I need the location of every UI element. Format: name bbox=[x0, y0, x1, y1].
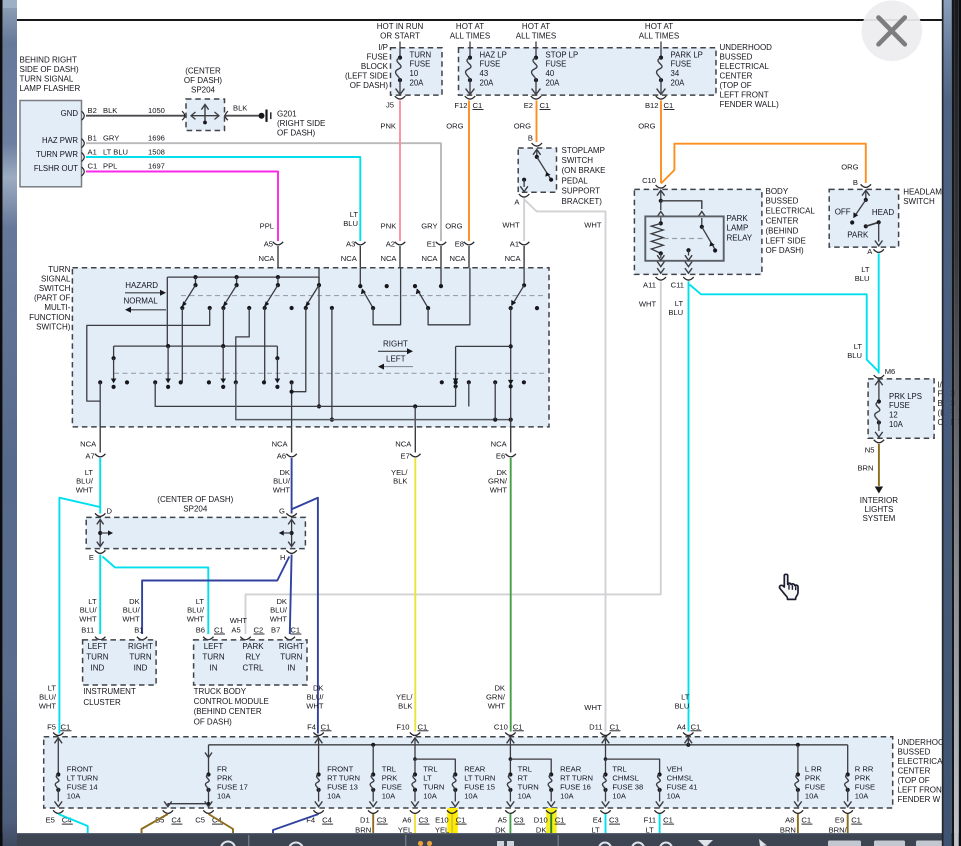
svg-text:OF DASH): OF DASH) bbox=[277, 128, 316, 137]
link n2 jog bbox=[236, 308, 249, 382]
wire BLK splice to ground bbox=[224, 115, 259, 117]
right contact bus C bbox=[456, 345, 511, 347]
underhood bussed electrical center box (top) bbox=[459, 48, 717, 95]
connector A5 arc bbox=[240, 637, 250, 640]
svg-text:BLU/: BLU/ bbox=[80, 606, 98, 615]
svg-text:FUNCTION: FUNCTION bbox=[29, 313, 71, 322]
svg-text:BRN: BRN bbox=[857, 463, 873, 472]
svg-text:(TOP OF: (TOP OF bbox=[720, 81, 752, 90]
svg-text:ALL TIMES: ALL TIMES bbox=[639, 31, 679, 40]
svg-text:RIGHT: RIGHT bbox=[279, 642, 304, 651]
wire DK BLU/WHT A6 to G bbox=[291, 458, 293, 514]
wire BRN C5 exit bbox=[209, 814, 234, 846]
svg-text:L RR: L RR bbox=[805, 765, 823, 774]
connector B arc headlamp bbox=[861, 184, 871, 187]
wire DK BLU F4 exit bbox=[273, 814, 319, 846]
fuse HAZ LP 43 bbox=[469, 42, 471, 58]
svg-text:SIGNAL: SIGNAL bbox=[41, 274, 71, 283]
svg-text:TURN: TURN bbox=[48, 265, 70, 274]
connector A arc headlamp bbox=[874, 249, 884, 252]
svg-text:12: 12 bbox=[889, 411, 898, 420]
svg-text:A6: A6 bbox=[277, 451, 286, 460]
connector A8 C1 exit bbox=[793, 810, 803, 813]
svg-text:WHT: WHT bbox=[122, 614, 140, 623]
svg-text:E8: E8 bbox=[455, 239, 464, 248]
wire LT BLU E to B11 bbox=[99, 555, 101, 635]
svg-text:OF DASH): OF DASH) bbox=[350, 81, 389, 90]
hand cursor bbox=[779, 574, 798, 599]
svg-text:ALL TIMES: ALL TIMES bbox=[516, 31, 556, 40]
svg-text:D10: D10 bbox=[534, 816, 548, 825]
svg-text:WHT: WHT bbox=[273, 486, 291, 495]
svg-text:DK: DK bbox=[313, 684, 324, 693]
svg-text:LT: LT bbox=[675, 299, 684, 308]
svg-text:SWITCH: SWITCH bbox=[562, 156, 594, 165]
svg-text:F5: F5 bbox=[47, 722, 56, 731]
connector B11 arc bbox=[95, 637, 105, 640]
svg-text:LIGHTS: LIGHTS bbox=[864, 505, 893, 514]
wire stub E1 into switch bbox=[440, 246, 442, 268]
svg-text:C1: C1 bbox=[851, 816, 861, 825]
svg-text:1050: 1050 bbox=[148, 106, 165, 115]
svg-text:A1: A1 bbox=[510, 239, 519, 248]
svg-text:FRONT: FRONT bbox=[327, 765, 354, 774]
toolbar icon circles right bbox=[599, 843, 611, 846]
wire ORG branch to headlamp switch B bbox=[661, 144, 866, 184]
connector G arc bbox=[286, 513, 296, 516]
svg-text:TURN: TURN bbox=[518, 782, 539, 791]
FR PRK output split to B5 C5 bbox=[168, 804, 209, 807]
svg-text:GRY: GRY bbox=[103, 134, 119, 143]
wire stub A2 into switch bbox=[399, 246, 401, 268]
svg-text:HEAD: HEAD bbox=[872, 208, 894, 217]
wire ORG F12 to E8 bbox=[468, 101, 470, 242]
svg-text:ORG: ORG bbox=[446, 121, 463, 130]
svg-text:LEFT: LEFT bbox=[88, 642, 108, 651]
fuse FRONT RT TURN 13 bbox=[318, 746, 320, 775]
svg-text:1697: 1697 bbox=[148, 161, 165, 170]
svg-text:FUSE: FUSE bbox=[855, 782, 875, 791]
svg-text:PNK: PNK bbox=[380, 121, 396, 130]
highlight yellow band E10 bbox=[447, 808, 458, 846]
svg-text:B11: B11 bbox=[81, 626, 94, 635]
svg-text:J5: J5 bbox=[386, 101, 394, 110]
wire BRN N5 to interior lights bbox=[878, 444, 880, 486]
svg-text:PRK: PRK bbox=[805, 774, 821, 783]
svg-text:RELAY: RELAY bbox=[727, 234, 753, 243]
svg-text:BUSSED: BUSSED bbox=[720, 52, 753, 61]
svg-text:A7: A7 bbox=[85, 451, 94, 460]
link E1 unit to E8 entry bbox=[428, 268, 470, 325]
bus box entry connector bbox=[600, 732, 610, 735]
connector E9 C1 exit bbox=[843, 810, 853, 813]
svg-text:D: D bbox=[107, 507, 113, 516]
svg-text:FUSE: FUSE bbox=[410, 60, 431, 69]
svg-text:IND: IND bbox=[134, 663, 148, 672]
wire DK GRN/WHT E6 to C10 bbox=[510, 458, 512, 732]
A7 takeoff bbox=[99, 382, 101, 427]
hazard fixed contacts upper row bbox=[208, 306, 212, 310]
fuse FRONT LT TURN 14 bbox=[57, 746, 59, 775]
flasher pin arc bbox=[82, 153, 85, 162]
svg-text:PARK: PARK bbox=[727, 214, 749, 223]
svg-text:E4: E4 bbox=[593, 816, 602, 825]
close button bbox=[862, 1, 923, 62]
svg-text:GND: GND bbox=[61, 109, 79, 118]
svg-text:TURN PWR: TURN PWR bbox=[36, 150, 78, 159]
svg-text:PARK: PARK bbox=[847, 231, 869, 240]
fuse TRL LT TURN and pair feed bbox=[414, 746, 416, 760]
link 468 drop bbox=[468, 382, 470, 406]
svg-text:BUSSED: BUSSED bbox=[898, 747, 931, 756]
svg-text:BODY: BODY bbox=[766, 187, 789, 196]
wire stub A5 into switch bbox=[277, 246, 279, 268]
svg-text:WHT: WHT bbox=[306, 701, 324, 710]
svg-text:(LEFT SIDE: (LEFT SIDE bbox=[345, 72, 388, 81]
connector B7 arc bbox=[285, 637, 295, 640]
svg-text:20A: 20A bbox=[410, 79, 425, 88]
svg-text:FENDER W: FENDER W bbox=[898, 795, 941, 804]
svg-text:PARK LP: PARK LP bbox=[671, 50, 703, 59]
svg-text:B1: B1 bbox=[88, 134, 97, 143]
connector A arc stoplamp bbox=[519, 194, 529, 197]
svg-text:HOT AT: HOT AT bbox=[645, 22, 673, 31]
svg-text:WHT: WHT bbox=[584, 703, 602, 712]
frame top border line bbox=[17, 19, 943, 21]
svg-text:R RR: R RR bbox=[855, 765, 874, 774]
fuse TURN FUSE 10 20A bbox=[398, 56, 402, 60]
row link to horizontal E7 line bbox=[155, 382, 455, 406]
svg-text:REAR: REAR bbox=[560, 765, 582, 774]
svg-text:CHMSL: CHMSL bbox=[667, 774, 694, 783]
relay switch fixed contact bbox=[686, 248, 690, 252]
svg-text:HOT AT: HOT AT bbox=[522, 22, 550, 31]
svg-text:D11: D11 bbox=[589, 722, 602, 731]
connector N5 arc bbox=[874, 440, 884, 443]
svg-text:RT: RT bbox=[518, 774, 528, 783]
arrow contact on E6 column bbox=[508, 380, 514, 385]
svg-text:C1: C1 bbox=[513, 722, 523, 731]
svg-text:YEL/: YEL/ bbox=[396, 693, 413, 702]
connector E5 C4 exit bbox=[53, 810, 63, 813]
fuse TRL CHMSL 38 and pair feed bbox=[605, 746, 607, 760]
svg-text:10: 10 bbox=[410, 69, 419, 78]
svg-text:E9: E9 bbox=[835, 816, 844, 825]
wire LT BLU 1508 to A3 bbox=[86, 157, 360, 241]
svg-text:A11: A11 bbox=[643, 281, 656, 290]
svg-text:A5: A5 bbox=[498, 816, 507, 825]
svg-text:BLK: BLK bbox=[233, 104, 247, 113]
svg-text:PPL: PPL bbox=[260, 222, 274, 231]
svg-text:BLU: BLU bbox=[675, 701, 690, 710]
svg-text:BLK: BLK bbox=[393, 477, 407, 486]
connector H arc bbox=[286, 550, 296, 553]
wire DK BLU branch G to F4 column bbox=[292, 498, 318, 734]
svg-text:LT: LT bbox=[423, 774, 432, 783]
svg-text:LT: LT bbox=[88, 597, 97, 606]
fuse VEH CHMSL 41 bbox=[658, 772, 662, 776]
svg-text:DK: DK bbox=[279, 468, 290, 477]
svg-text:ORG: ORG bbox=[841, 163, 858, 172]
svg-text:BLK: BLK bbox=[398, 701, 412, 710]
svg-text:LAMP FLASHER: LAMP FLASHER bbox=[20, 84, 81, 93]
switch column x319 bbox=[318, 268, 320, 277]
svg-text:FUSE 16: FUSE 16 bbox=[560, 782, 591, 791]
connector C10 arc bbox=[656, 185, 666, 188]
svg-text:C3: C3 bbox=[377, 816, 387, 825]
fuse FR PRK 17 bbox=[208, 745, 210, 752]
svg-text:LT TURN: LT TURN bbox=[464, 774, 495, 783]
svg-text:MULTI-: MULTI- bbox=[44, 303, 70, 312]
svg-text:FRONT: FRONT bbox=[67, 765, 94, 774]
svg-text:C1: C1 bbox=[664, 101, 674, 110]
splice internals left bbox=[99, 520, 101, 547]
connector B1 arc bbox=[137, 637, 147, 640]
svg-text:1696: 1696 bbox=[148, 134, 165, 143]
relay switch side pin arrows bbox=[698, 212, 705, 217]
svg-text:GRN/: GRN/ bbox=[486, 693, 506, 702]
svg-text:B: B bbox=[528, 134, 533, 143]
svg-text:SWITCH): SWITCH) bbox=[36, 322, 71, 331]
connector F11 C1 exit bbox=[654, 810, 664, 813]
svg-text:FUSE: FUSE bbox=[382, 782, 402, 791]
row link to horizontal E6 line bbox=[236, 382, 511, 419]
svg-text:OF DASH): OF DASH) bbox=[184, 76, 223, 85]
svg-text:B7: B7 bbox=[271, 626, 280, 635]
svg-text:SWITCH: SWITCH bbox=[39, 284, 71, 293]
bus box entry connector bbox=[410, 732, 420, 735]
switch internal bus B bbox=[114, 345, 278, 347]
link diag2 to busB bbox=[222, 308, 224, 346]
svg-text:10A: 10A bbox=[889, 420, 904, 429]
svg-text:E: E bbox=[89, 553, 94, 562]
svg-text:C2: C2 bbox=[254, 626, 264, 635]
BBEC internal feed wires bbox=[659, 199, 663, 203]
toolbar icon cursor bbox=[759, 839, 767, 846]
svg-text:HAZ LP: HAZ LP bbox=[480, 50, 507, 59]
switch internal bus A bbox=[167, 276, 319, 278]
svg-text:LEFT SIDE: LEFT SIDE bbox=[766, 236, 806, 245]
wire YEL E10 exit bbox=[451, 814, 453, 846]
link n1 long path to A7 column bbox=[87, 308, 210, 401]
svg-text:HAZ PWR: HAZ PWR bbox=[42, 136, 78, 145]
svg-text:A6: A6 bbox=[402, 816, 411, 825]
svg-text:HEADLAMP: HEADLAMP bbox=[903, 187, 947, 196]
svg-text:UNDERHOOD: UNDERHOOD bbox=[720, 43, 773, 52]
connector A5 arc bbox=[273, 242, 283, 245]
connector E2 C1 arc bbox=[531, 96, 541, 99]
svg-text:TURN: TURN bbox=[86, 653, 108, 662]
truck body control module box bbox=[194, 640, 307, 685]
svg-text:TRL: TRL bbox=[518, 765, 532, 774]
fuse REAR RT TURN 16 bbox=[549, 772, 553, 776]
switch internal bus A left drop bbox=[166, 277, 168, 346]
connector E8 arc bbox=[464, 242, 474, 245]
svg-text:A5: A5 bbox=[264, 239, 273, 248]
svg-text:CLUSTER: CLUSTER bbox=[83, 698, 121, 707]
BBEC entry arrow C10 bbox=[657, 190, 665, 195]
svg-text:WHT: WHT bbox=[39, 701, 57, 710]
svg-text:34: 34 bbox=[671, 69, 680, 78]
svg-text:UNDERHOO: UNDERHOO bbox=[898, 738, 945, 747]
park lamp relay box bbox=[645, 216, 723, 260]
svg-text:BLU/: BLU/ bbox=[273, 477, 291, 486]
wire DK GRN A5 exit bbox=[509, 814, 511, 846]
svg-text:10A: 10A bbox=[518, 791, 532, 800]
toolbar icon funnel bbox=[698, 840, 713, 846]
connector A6 C3 exit bbox=[410, 810, 420, 813]
bus box entry connector bbox=[313, 732, 323, 735]
connector D1 C3 exit bbox=[368, 810, 378, 813]
svg-text:C5: C5 bbox=[195, 816, 205, 825]
svg-text:C1: C1 bbox=[473, 101, 483, 110]
svg-text:E6: E6 bbox=[496, 451, 505, 460]
toolbar buttons right bbox=[828, 841, 861, 846]
svg-text:BLU/: BLU/ bbox=[307, 693, 325, 702]
svg-text:LEFT FRONT: LEFT FRONT bbox=[720, 91, 769, 100]
svg-text:C3: C3 bbox=[609, 816, 619, 825]
svg-text:C1: C1 bbox=[540, 101, 550, 110]
svg-text:E5: E5 bbox=[46, 816, 55, 825]
svg-text:DK: DK bbox=[496, 468, 507, 477]
bus B moving contacts bbox=[113, 346, 115, 358]
svg-text:NCA: NCA bbox=[449, 254, 466, 263]
svg-text:BLU: BLU bbox=[668, 308, 683, 317]
splice SP204 internals bbox=[191, 115, 219, 117]
svg-text:SP204: SP204 bbox=[183, 504, 208, 513]
svg-text:(BEHIND CENTER: (BEHIND CENTER bbox=[194, 707, 262, 716]
E6 column bbox=[510, 308, 512, 427]
svg-text:OR START: OR START bbox=[380, 31, 420, 40]
svg-text:SUPPORT: SUPPORT bbox=[562, 187, 601, 196]
svg-text:PEDAL: PEDAL bbox=[562, 176, 589, 185]
svg-text:LEFT FRON: LEFT FRON bbox=[898, 786, 943, 795]
svg-text:BLU: BLU bbox=[855, 274, 870, 283]
svg-text:A2: A2 bbox=[386, 239, 395, 248]
svg-text:FUSE 13: FUSE 13 bbox=[327, 782, 358, 791]
wire GRY 1696 to E1 bbox=[86, 143, 441, 241]
svg-text:SWITCH: SWITCH bbox=[903, 197, 935, 206]
bus box entry connector bbox=[505, 732, 515, 735]
svg-text:WHT: WHT bbox=[490, 486, 508, 495]
svg-text:STOPLAMP: STOPLAMP bbox=[562, 146, 605, 155]
svg-text:PRK LPS: PRK LPS bbox=[889, 392, 922, 401]
flasher pin arc bbox=[82, 111, 85, 120]
svg-text:C1: C1 bbox=[418, 722, 428, 731]
svg-text:INSTRUMENT: INSTRUMENT bbox=[83, 687, 136, 696]
svg-text:OFF: OFF bbox=[835, 208, 851, 217]
bottom toolbar bbox=[0, 833, 961, 846]
connector D10 C1 exit bbox=[546, 810, 556, 813]
bus C fixed dots bbox=[440, 380, 444, 384]
wire BLK 1050 GND segment bbox=[86, 115, 186, 117]
svg-text:FUSE: FUSE bbox=[367, 52, 388, 61]
svg-text:CENTER: CENTER bbox=[720, 71, 753, 80]
wire WHT A11 to park rly ctrl bbox=[246, 281, 661, 634]
link 495 drop bbox=[494, 382, 496, 419]
relay coil resistor bbox=[660, 218, 662, 224]
svg-text:HOT AT: HOT AT bbox=[456, 22, 484, 31]
connector M6 arc bbox=[874, 375, 884, 378]
svg-text:CHMSL: CHMSL bbox=[612, 774, 639, 783]
svg-text:A4: A4 bbox=[677, 722, 686, 731]
svg-text:TRL: TRL bbox=[382, 765, 396, 774]
toolbar icon circle 1 bbox=[221, 842, 235, 846]
svg-text:ELECTRICAL: ELECTRICAL bbox=[766, 207, 816, 216]
connector A11 arc bbox=[656, 277, 666, 280]
relay bottom pin arrows switch bbox=[685, 255, 692, 260]
svg-text:FUSE 17: FUSE 17 bbox=[217, 782, 248, 791]
svg-text:WHT: WHT bbox=[76, 486, 94, 495]
svg-text:C1: C1 bbox=[88, 161, 98, 170]
wire YEL A6 exit bbox=[414, 814, 416, 846]
svg-text:PRK: PRK bbox=[855, 774, 871, 783]
svg-text:(RIGHT SIDE: (RIGHT SIDE bbox=[277, 119, 325, 128]
svg-text:ORG: ORG bbox=[445, 222, 462, 231]
link diag4 jog to A6 column bbox=[292, 308, 306, 392]
wire LT BLU/WHT A7 to D bbox=[99, 458, 101, 514]
link A3 unit to A2 entry bbox=[373, 268, 401, 325]
connector E7 arc bbox=[414, 427, 416, 453]
underhood BEC box (bottom) bbox=[44, 737, 893, 808]
svg-text:TURN: TURN bbox=[129, 653, 151, 662]
svg-text:WHT: WHT bbox=[488, 701, 506, 710]
connector E arc bbox=[95, 550, 105, 553]
svg-text:WHT: WHT bbox=[502, 220, 520, 229]
fuse PARK LP 34 bbox=[660, 42, 662, 58]
connector F12 C1 arc bbox=[465, 96, 475, 99]
toolbar separators bbox=[248, 835, 249, 846]
svg-text:I/P: I/P bbox=[378, 43, 388, 52]
svg-text:FUSE 14: FUSE 14 bbox=[67, 782, 98, 791]
svg-text:M6: M6 bbox=[885, 367, 896, 376]
svg-text:B: B bbox=[853, 178, 858, 187]
highlight yellow band D10 bbox=[546, 808, 557, 846]
relay internal dashed guide bbox=[664, 238, 706, 240]
svg-text:LEFT: LEFT bbox=[386, 355, 406, 364]
svg-text:FUSE: FUSE bbox=[671, 60, 692, 69]
link n4 drop bbox=[331, 308, 333, 420]
svg-text:10A: 10A bbox=[67, 791, 81, 800]
wire LT BLU C11 down to A4 bbox=[688, 281, 690, 731]
svg-text:C11: C11 bbox=[671, 281, 684, 290]
svg-text:GRN/: GRN/ bbox=[488, 477, 508, 486]
svg-text:RT TURN: RT TURN bbox=[560, 774, 593, 783]
wire PNK J5 to A2 bbox=[399, 101, 401, 242]
wire LT BLU E4 exit bbox=[605, 814, 607, 846]
svg-text:C1: C1 bbox=[61, 722, 71, 731]
svg-text:BLU/: BLU/ bbox=[39, 693, 57, 702]
svg-text:N5: N5 bbox=[865, 445, 875, 454]
wire LT BLU C11 branch to M6 bbox=[690, 285, 879, 372]
svg-text:B6: B6 bbox=[196, 626, 205, 635]
fuse TRL RT TURN and pair feed bbox=[509, 746, 511, 760]
svg-text:10A: 10A bbox=[667, 791, 681, 800]
ip fuse block box bbox=[391, 48, 443, 95]
headlamp switch internals bbox=[862, 190, 870, 195]
right window strip bbox=[942, 0, 944, 846]
connector E4 C3 exit bbox=[600, 810, 610, 813]
wire LT BLU E branch to B6 bbox=[103, 557, 209, 635]
wire ORG B12 to C10 relay bbox=[660, 101, 662, 184]
wire DK GRN D10 exit bbox=[550, 814, 552, 846]
svg-text:REAR: REAR bbox=[464, 765, 486, 774]
fuse PRK LPS 12 10A bbox=[875, 380, 883, 385]
svg-text:C1: C1 bbox=[663, 816, 673, 825]
ground G201 symbol bbox=[259, 113, 265, 119]
wire stub A3 into switch bbox=[359, 246, 361, 268]
svg-text:HAZARD: HAZARD bbox=[125, 281, 158, 290]
